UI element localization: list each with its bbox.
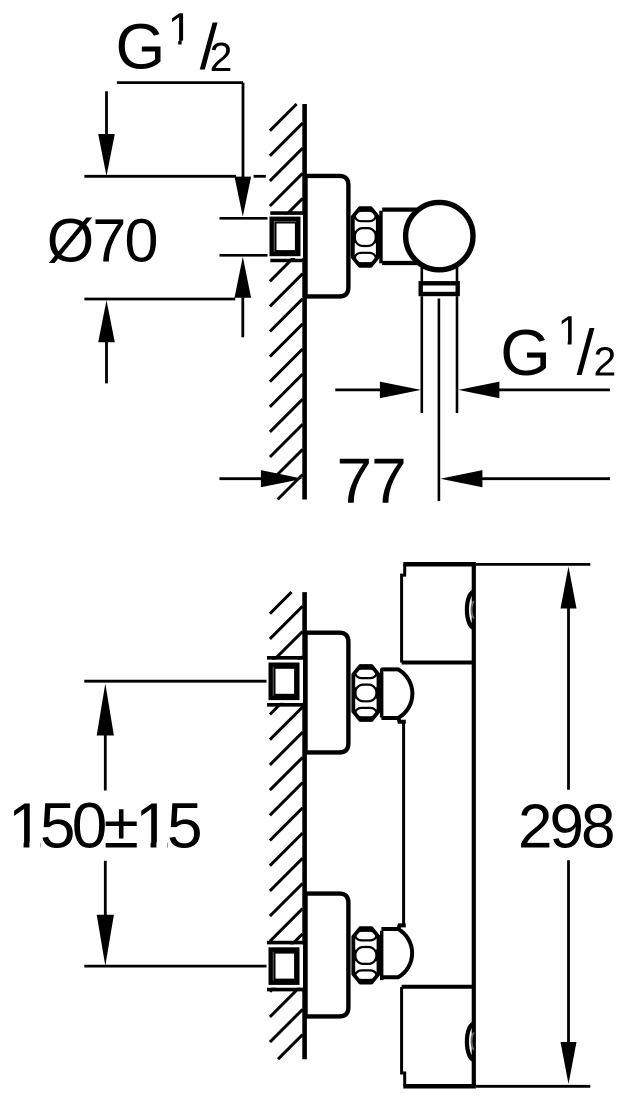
dimension 77 left segment	[219, 477, 262, 480]
knob profile lower	[467, 1024, 474, 1060]
shower pipe left wall (top view)	[420, 296, 423, 413]
union square upper (bottom view)	[267, 658, 305, 705]
valve inlet cylinder (top view)	[382, 210, 420, 263]
hex nut upper (bottom view)	[353, 666, 381, 720]
extension line 298 top	[476, 563, 590, 566]
extension center line upper connection	[84, 680, 270, 683]
serif white-outs for digit 1 glyphs	[12, 41, 579, 849]
dimension rail G1/2 top horizontal	[117, 81, 243, 84]
arrow up to body top line	[561, 567, 577, 609]
hex nut lower (bottom view)	[353, 928, 381, 982]
extension center line lower connection	[84, 965, 270, 968]
dimension 298 vertical upper part	[567, 607, 570, 790]
wall line (top view)	[302, 104, 307, 500]
svg-text:2: 2	[210, 34, 233, 80]
arrow down to flange top line	[98, 134, 115, 176]
boss upper connection	[381, 669, 412, 721]
arrow up to upper connection line	[97, 684, 114, 736]
union square lower (bottom view)	[267, 943, 305, 990]
svg-text:G: G	[116, 11, 166, 83]
arrow down to body bottom line	[561, 1042, 577, 1084]
thermostat body	[402, 564, 476, 1086]
collar (top view)	[421, 283, 458, 294]
wall pipe top line (top view)	[220, 217, 271, 220]
svg-text:2: 2	[594, 338, 617, 384]
valve body ball (top view)	[406, 202, 473, 269]
arrow up to flange bottom line	[98, 300, 115, 342]
dimension rail G1/2 top vertical	[242, 83, 245, 177]
svg-text:298: 298	[518, 792, 613, 861]
shower pipe right wall (top view)	[456, 296, 459, 413]
wall hatching (top view)	[270, 104, 303, 500]
svg-text:150±15: 150±15	[8, 790, 200, 862]
svg-text:1: 1	[168, 4, 193, 55]
dimension line G1/2 right, left segment	[335, 388, 381, 391]
arrow right to wall (77)	[261, 470, 303, 487]
arrow down to lower connection line	[97, 915, 114, 966]
svg-text:Ø70: Ø70	[47, 206, 157, 274]
label G 1/2 (right)	[500, 308, 616, 389]
wall pipe bottom line (top view)	[220, 254, 271, 257]
arrow up to wall pipe bottom	[235, 257, 252, 298]
arrow left to pipe center (77)	[440, 470, 482, 487]
extension line flange top	[84, 175, 236, 178]
dimension 77 right segment	[481, 477, 610, 480]
wall hatching (bottom view)	[270, 592, 303, 1059]
dimension 150 vertical lower part	[104, 861, 107, 916]
dimension 298 vertical lower part	[567, 860, 570, 1043]
label G 1/2 (top)	[116, 4, 233, 83]
arrow left to pipe right wall	[458, 382, 499, 399]
boss lower connection	[381, 925, 412, 977]
dimension 150 vertical upper part	[104, 735, 107, 791]
union square assembly (top view)	[268, 213, 305, 260]
wall line (bottom view)	[302, 592, 307, 1059]
arrow down to wall pipe top	[235, 177, 252, 217]
knob profile upper	[467, 592, 474, 628]
svg-text:/: /	[577, 316, 595, 388]
dimension line G1/2 right, right segment	[498, 388, 610, 391]
neck below ball (top view)	[422, 267, 457, 283]
svg-text:77: 77	[337, 445, 406, 517]
hex union nut (top view)	[353, 208, 381, 266]
dash of flange top extension	[254, 175, 266, 178]
extension line flange bottom	[84, 298, 235, 301]
flange escutcheon (top view)	[306, 176, 349, 297]
flange lower (bottom view)	[306, 894, 349, 1017]
flange upper (bottom view)	[306, 633, 349, 753]
extension line 298 bottom	[476, 1085, 590, 1088]
shower pipe center line (top view)	[438, 299, 441, 502]
arrow right to pipe left wall	[380, 382, 421, 399]
svg-text:G: G	[500, 316, 551, 389]
